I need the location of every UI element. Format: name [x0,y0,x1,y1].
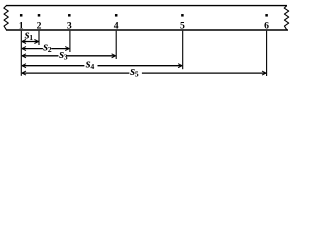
arrow s1 left head [22,40,26,44]
svg-text:4: 4 [90,62,94,71]
svg-text:2: 2 [37,20,42,31]
arrow s1 right head [34,40,38,44]
tick 6 [266,31,268,76]
svg-text:3: 3 [67,20,72,31]
node dot 3 [68,14,71,16]
svg-text:3: 3 [64,52,68,61]
tick 2 [38,31,40,45]
tick 5 [182,31,184,69]
bar bottom line [6,29,288,31]
left break squiggle [4,6,9,31]
node dot 2 [38,14,41,16]
arrow s2 line left segment [22,48,43,50]
svg-text:4: 4 [114,20,119,31]
arrow s4 line right segment [98,65,183,67]
node dot 6 [265,14,268,16]
node dot 5 [181,14,184,16]
svg-text:5: 5 [135,70,139,79]
arrow s3 line left segment [22,55,59,57]
arrow s3 line right segment [67,55,116,57]
arrow s5 right head [262,71,266,75]
arrow s1 line [22,41,38,43]
node dot 1 [20,14,23,16]
arrow s5 line left segment [22,72,129,74]
svg-text:6: 6 [264,20,269,31]
tick 1 [20,31,22,76]
svg-text:1: 1 [29,33,33,42]
arrow s4 line left segment [22,65,84,67]
arrow s5 line right segment [142,72,266,74]
node dot 4 [115,14,118,16]
svg-text:2: 2 [48,45,52,54]
arrow s4 right head [178,64,182,68]
right break squiggle [284,6,289,31]
arrow s4 left head [22,64,26,68]
tick 4 [115,31,117,59]
svg-text:5: 5 [180,20,185,31]
bar top line [6,5,287,7]
arrow s2 right head [65,47,69,51]
tick 3 [69,31,71,52]
svg-text:1: 1 [19,20,24,31]
arrow s3 left head [22,54,26,58]
arrow s2 line right segment [51,48,69,50]
arrow s2 left head [22,47,26,51]
arrow s3 right head [112,54,116,58]
arrow s5 left head [22,71,26,75]
